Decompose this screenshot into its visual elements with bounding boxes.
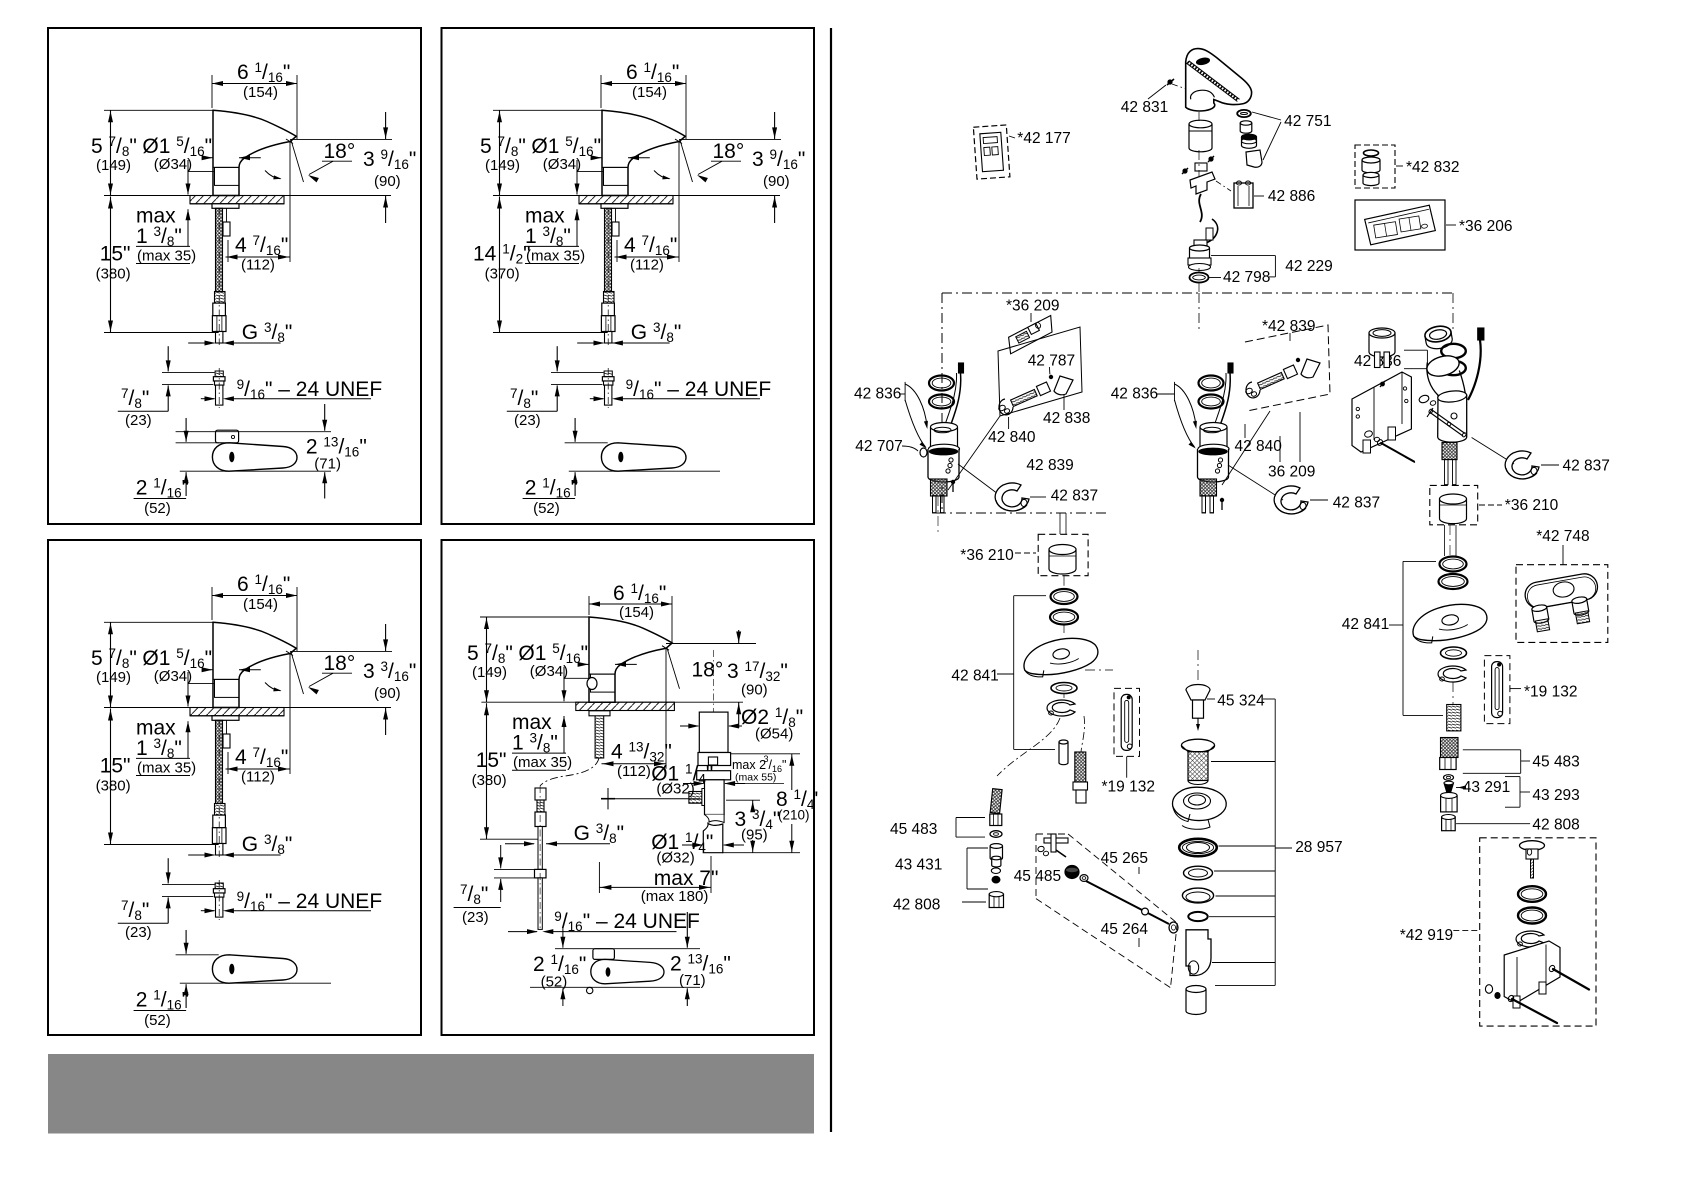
svg-text:42 798: 42 798 (1223, 269, 1270, 286)
svg-text:(149): (149) (96, 157, 131, 174)
svg-text:*42 748: *42 748 (1536, 528, 1589, 545)
svg-text:45 483: 45 483 (1532, 754, 1579, 771)
svg-text:42 229: 42 229 (1285, 258, 1332, 275)
svg-text:43 431: 43 431 (895, 857, 942, 874)
svg-text:(Ø34): (Ø34) (543, 156, 581, 173)
svg-text:6 1/16": 6 1/16" (237, 572, 290, 597)
svg-text:(154): (154) (619, 604, 654, 621)
svg-text:45 483: 45 483 (890, 821, 937, 838)
svg-text:(90): (90) (763, 173, 790, 190)
svg-text:45 264: 45 264 (1101, 921, 1149, 938)
svg-text:*42 919: *42 919 (1400, 927, 1453, 944)
svg-text:2 1/16": 2 1/16" (136, 988, 189, 1013)
svg-text:45 324: 45 324 (1217, 693, 1265, 710)
svg-text:42 707: 42 707 (855, 438, 902, 455)
svg-text:(154): (154) (243, 84, 278, 101)
svg-text:(max 35): (max 35) (137, 248, 196, 265)
svg-text:*36 206: *36 206 (1459, 218, 1512, 235)
svg-text:*42 177: *42 177 (1017, 130, 1070, 147)
svg-text:*19 132: *19 132 (1102, 779, 1155, 796)
svg-text:42 837: 42 837 (1563, 458, 1610, 475)
svg-text:42 838: 42 838 (1043, 410, 1090, 427)
svg-text:(380): (380) (96, 266, 131, 283)
svg-text:(max 35): (max 35) (137, 760, 196, 777)
svg-text:(370): (370) (485, 266, 520, 283)
svg-text:*19 132: *19 132 (1524, 684, 1577, 701)
svg-text:3 3/16": 3 3/16" (363, 659, 416, 684)
svg-text:(112): (112) (241, 769, 275, 786)
svg-text:18°: 18° (324, 652, 356, 675)
svg-text:(380): (380) (96, 778, 131, 795)
svg-text:45 265: 45 265 (1101, 850, 1148, 867)
svg-text:42 840: 42 840 (988, 429, 1036, 446)
svg-text:(380): (380) (472, 772, 507, 789)
svg-text:(23): (23) (462, 909, 489, 926)
svg-text:42 808: 42 808 (1532, 817, 1579, 834)
svg-text:3 9/16": 3 9/16" (363, 147, 416, 172)
svg-text:42 886: 42 886 (1268, 188, 1315, 205)
svg-text:(149): (149) (485, 157, 520, 174)
svg-text:4 7/16": 4 7/16" (624, 233, 677, 258)
svg-text:(112): (112) (630, 257, 664, 274)
svg-text:(71): (71) (314, 456, 341, 473)
svg-text:(max 55): (max 55) (735, 772, 776, 784)
svg-text:(23): (23) (514, 412, 541, 429)
svg-text:42 839: 42 839 (1026, 457, 1073, 474)
svg-text:(max 180): (max 180) (641, 888, 709, 905)
svg-text:42 840: 42 840 (1235, 438, 1283, 455)
svg-text:(154): (154) (632, 84, 667, 101)
svg-text:42 841: 42 841 (951, 667, 998, 684)
svg-text:42 836: 42 836 (1111, 386, 1158, 403)
svg-text:*42 839: *42 839 (1262, 318, 1315, 335)
svg-text:15": 15" (100, 243, 131, 266)
svg-text:(149): (149) (472, 664, 507, 681)
svg-text:(71): (71) (679, 972, 706, 989)
svg-text:18°: 18° (692, 659, 724, 682)
svg-text:4 7/16": 4 7/16" (235, 233, 288, 258)
svg-text:18°: 18° (713, 140, 745, 163)
svg-text:(Ø34): (Ø34) (154, 156, 192, 173)
svg-text:3 9/16": 3 9/16" (752, 147, 805, 172)
svg-text:42 808: 42 808 (893, 897, 940, 914)
svg-text:42 837: 42 837 (1051, 488, 1098, 505)
svg-text:(90): (90) (741, 682, 768, 699)
svg-text:(52): (52) (533, 500, 560, 517)
svg-text:42 751: 42 751 (1284, 113, 1331, 130)
svg-text:42 831: 42 831 (1121, 99, 1168, 116)
svg-text:42 787: 42 787 (1028, 352, 1075, 369)
svg-text:28 957: 28 957 (1295, 839, 1342, 856)
svg-text:15": 15" (100, 755, 131, 778)
svg-text:(23): (23) (125, 412, 152, 429)
svg-text:(23): (23) (125, 924, 152, 941)
svg-text:36 209: 36 209 (1268, 464, 1315, 481)
svg-text:42 841: 42 841 (1342, 616, 1389, 633)
svg-text:(210): (210) (778, 808, 810, 823)
svg-text:2 1/16": 2 1/16" (525, 476, 578, 501)
svg-text:6 1/16": 6 1/16" (613, 581, 666, 606)
svg-text:(52): (52) (541, 974, 568, 991)
svg-text:(112): (112) (617, 763, 651, 780)
svg-text:6 1/16": 6 1/16" (626, 60, 679, 85)
svg-text:*36 210: *36 210 (1505, 497, 1559, 514)
svg-text:43 293: 43 293 (1532, 787, 1579, 804)
svg-text:(112): (112) (241, 257, 275, 274)
svg-text:*42 832: *42 832 (1406, 159, 1459, 176)
svg-text:18°: 18° (324, 140, 356, 163)
svg-text:6 1/16": 6 1/16" (237, 60, 290, 85)
svg-text:4 7/16": 4 7/16" (235, 745, 288, 770)
svg-text:(90): (90) (374, 173, 401, 190)
svg-text:(149): (149) (96, 669, 131, 686)
svg-text:2 1/16": 2 1/16" (136, 476, 189, 501)
svg-text:42 837: 42 837 (1333, 495, 1380, 512)
svg-text:(52): (52) (144, 1012, 171, 1029)
svg-text:(Ø34): (Ø34) (154, 668, 192, 685)
svg-text:(90): (90) (374, 685, 401, 702)
svg-text:45 485: 45 485 (1014, 868, 1061, 885)
svg-text:42 836: 42 836 (854, 386, 901, 403)
svg-text:43 291: 43 291 (1463, 779, 1510, 796)
svg-text:(Ø54): (Ø54) (755, 726, 793, 743)
svg-text:(max 35): (max 35) (513, 754, 572, 771)
svg-text:(52): (52) (144, 500, 171, 517)
svg-text:*36 209: *36 209 (1006, 297, 1059, 314)
svg-text:15": 15" (476, 749, 507, 772)
svg-text:max 2: max 2 (732, 758, 766, 772)
svg-text:(max 35): (max 35) (526, 248, 585, 265)
svg-text:max 7": max 7" (654, 867, 719, 890)
svg-text:(Ø34): (Ø34) (530, 663, 568, 680)
svg-text:*36 210: *36 210 (960, 547, 1014, 564)
svg-text:(Ø32): (Ø32) (656, 850, 694, 867)
svg-text:(154): (154) (243, 596, 278, 613)
